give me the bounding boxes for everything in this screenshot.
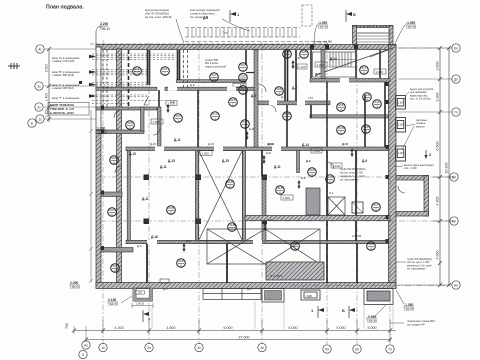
door swings: [114, 84, 405, 193]
right dimension frame: [440, 48, 449, 286]
level -1.050/192.05: [406, 21, 416, 30]
section mark kБ top: [346, 10, 352, 22]
right wall window wells: [396, 96, 406, 162]
horizontal axis dash-dot lines: [100, 48, 452, 286]
bottom grid bubbles: [79, 341, 394, 359]
bottom dim texts: [65, 323, 377, 340]
main outer walls: [96, 26, 429, 289]
bottom wall: [96, 283, 396, 289]
interior dim line left: [89, 110, 93, 283]
door gaps in corridor walls: [147, 78, 349, 244]
extra tiny labels for density: [137, 83, 361, 291]
bottom section marks: [318, 306, 324, 318]
right bay (machine room): [396, 176, 429, 181]
top wall: [96, 45, 396, 50]
wall pilasters: [101, 45, 389, 251]
left rooms partitions: [96, 107, 157, 252]
band3/4 wall y241: [126, 240, 388, 243]
right wall: [389, 45, 397, 288]
left address text block: [50, 103, 74, 115]
duct riser dashed line left: [128, 50, 130, 109]
central X-braced stair shaft: [199, 151, 243, 241]
main interior vertical wall x254-258: [254, 50, 258, 147]
partial wall y80 x176-246: [177, 80, 247, 83]
bottom exterior stair right: [364, 289, 393, 305]
left utility entry dashed lines: [92, 54, 176, 104]
interior vertical partitions band2: [158, 82, 386, 147]
section mark k1 top: [230, 10, 236, 22]
lower-center X-braced vent chamber: [207, 229, 320, 264]
right grid bubbles: [450, 44, 460, 289]
wall y217 right span: [245, 216, 390, 221]
door labels: [129, 16, 367, 239]
bottom small box СДВ: [301, 290, 320, 300]
bay inner line: [357, 32, 390, 34]
top pergola dashed band: [90, 28, 330, 45]
left inner corridor wall: [117, 49, 122, 283]
bottom entrance protrusion left: [133, 288, 153, 301]
bottom-left section mark k1: [143, 310, 149, 322]
bottom dim extension verticals: [74, 320, 390, 342]
top level mark 2.200/196.10: [100, 22, 110, 31]
dashed vertical chute top right: [302, 5, 312, 26]
hatched platform bottom center: [266, 262, 324, 280]
utility arrows: [89, 55, 96, 98]
bottom level annotations: [70, 281, 414, 324]
interior vertical partitions band4: [147, 243, 357, 283]
right side annotation texts: [340, 88, 434, 182]
up/down arrow door markers: [166, 60, 353, 252]
top annotation texts: [145, 8, 220, 19]
left wall: [96, 47, 101, 130]
bottom ticks line1: [72, 329, 392, 342]
top bay walls: [353, 26, 394, 28]
band2/3 wall y148: [126, 147, 388, 151]
bottom dimension frame: [74, 331, 396, 340]
corridor wall segment middle x258-330: [258, 101, 330, 105]
small A-9 style labels: [170, 56, 348, 243]
columns band3: [144, 175, 268, 225]
left dimension line + bubbles: [48, 49, 50, 122]
bottom mid protrusion: [262, 289, 284, 303]
elevator X shaft: [328, 197, 345, 215]
corridor wall segment right x310-390: [310, 79, 390, 83]
grey shaft rect: [306, 188, 320, 215]
utility text labels: [52, 56, 80, 100]
section mark III left: [8, 63, 20, 69]
interior vertical partitions band3: [127, 151, 266, 242]
vertical axis dash-dot lines: [103, 30, 390, 344]
staircase top-right: [313, 48, 395, 78]
bottom ramp protrusion: [203, 289, 261, 300]
corridor wall segment left x150-258: [96, 87, 157, 90]
small boxed labels: [151, 62, 386, 200]
machine room annotation right: [407, 258, 432, 271]
level -1.050/193.15: [318, 21, 328, 30]
room number circles: [108, 50, 382, 273]
section arrow 2 right: [425, 150, 428, 159]
interior vertical partitions band1 (top rooms): [148, 50, 381, 101]
